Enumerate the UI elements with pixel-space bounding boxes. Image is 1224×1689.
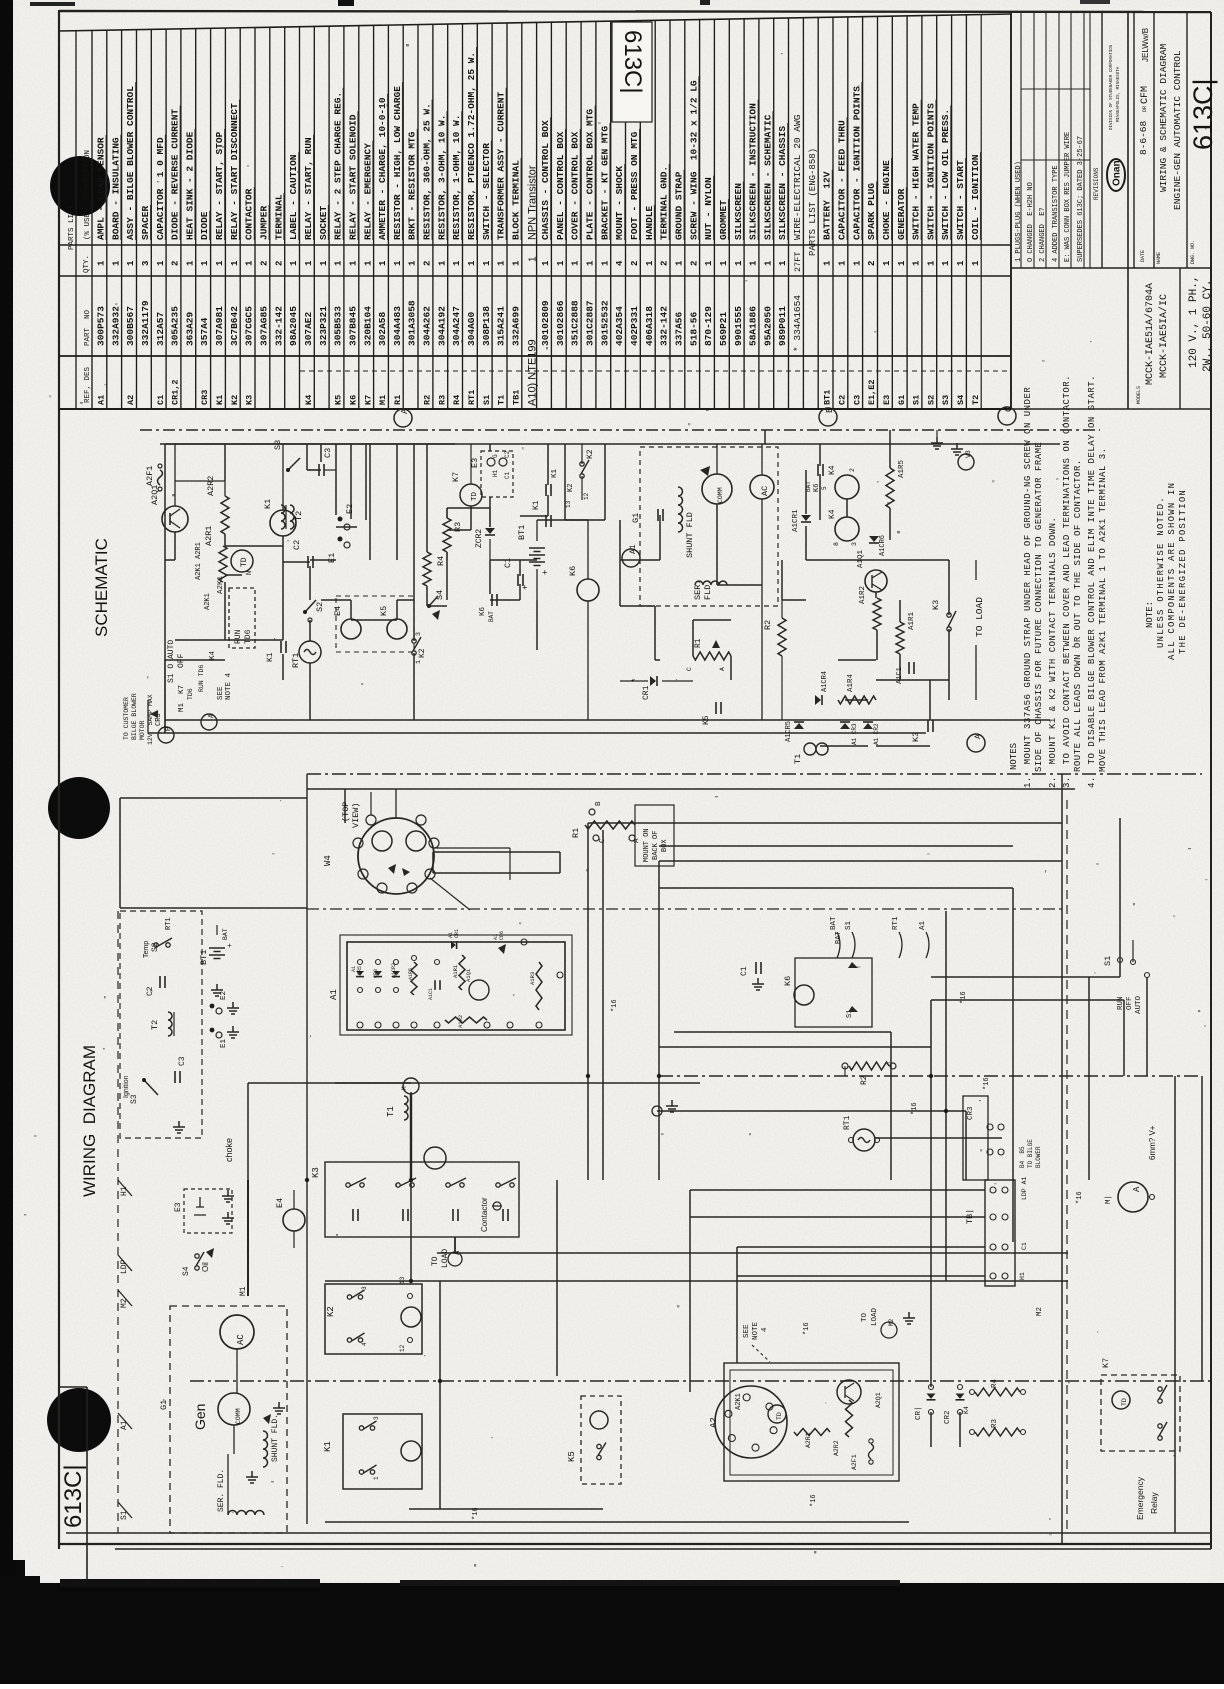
- wire: [433, 872, 560, 874]
- svg-text:98A2045: 98A2045: [288, 306, 299, 346]
- wire: [225, 574, 242, 576]
- svg-text:PARTS LIST (ENG-858): PARTS LIST (ENG-858): [808, 148, 818, 256]
- svg-text:TERMINAL GND.: TERMINAL GND.: [659, 166, 670, 240]
- svg-text:RT1: RT1: [291, 653, 301, 668]
- description underline: [742, 182, 744, 241]
- svg-text:A1R4: A1R4: [847, 673, 855, 692]
- svg-text:H1: H1: [120, 1186, 129, 1196]
- svg-text:R4: R4: [991, 1378, 999, 1388]
- svg-text:SWITCH - HIGH WATER TEMP: SWITCH - HIGH WATER TEMP: [911, 103, 922, 240]
- socket A2K1 circle: [715, 1386, 787, 1458]
- terminal labels on frame LDP: [118, 1255, 132, 1271]
- svg-text:JUMPER: JUMPER: [259, 205, 270, 240]
- svg-text:K7: K7: [1101, 1358, 1111, 1368]
- svg-text:8-6-68: 8-6-68: [1138, 120, 1149, 155]
- svg-text:TD6: TD6: [187, 688, 194, 700]
- svg-text:A2K1 A2R1: A2K1 A2R1: [195, 542, 203, 580]
- svg-text:RUN: RUN: [234, 629, 243, 644]
- svg-text:S1: S1: [845, 920, 853, 930]
- wire: [224, 582, 226, 640]
- svg-text:S1: S1: [912, 395, 922, 405]
- svg-text:NOTE: NOTE: [752, 1321, 760, 1340]
- svg-text:332A699: 332A699: [510, 306, 521, 346]
- svg-text:*16: *16: [983, 1077, 991, 1090]
- resistor R4 wiring: [975, 1388, 1020, 1396]
- wire: [889, 430, 891, 468]
- svg-text:K6: K6: [568, 566, 578, 576]
- svg-text:CR|: CR|: [915, 1406, 923, 1420]
- wire tail S1: [852, 932, 855, 958]
- time delay TD: [231, 550, 253, 572]
- svg-text:2: 2: [274, 261, 284, 266]
- svg-text:C3: C3: [323, 448, 333, 458]
- svg-text:LDP A1: LDP A1: [1021, 1176, 1028, 1200]
- feed-thru E1 wiring: [210, 1028, 215, 1033]
- svg-text:CR1: CR1: [454, 929, 460, 938]
- wire: [365, 444, 367, 520]
- svg-text:A1R3: A1R3: [529, 972, 536, 985]
- series field winding: [695, 581, 727, 585]
- svg-text:613C|: 613C|: [619, 30, 646, 94]
- diode CR1 wiring: [927, 1394, 936, 1399]
- svg-text:A1 CR2: A1 CR2: [873, 723, 880, 745]
- svg-text:8: 8: [833, 542, 840, 546]
- svg-text:S3: S3: [130, 1094, 139, 1104]
- wire: [427, 605, 447, 607]
- description underline: [298, 152, 300, 240]
- amplifier assembly A2 box: [724, 1363, 899, 1481]
- svg-text:1: 1: [926, 260, 936, 266]
- resistor A1R1: [896, 622, 904, 654]
- contact K3 upper: [947, 613, 951, 617]
- diode A1CR3: [840, 723, 850, 729]
- svg-text:C1: C1: [1021, 1242, 1028, 1250]
- svg-text:WIRE-ELECTRICAL 20 AWG: WIRE-ELECTRICAL 20 AWG: [792, 114, 803, 240]
- description underline: [283, 193, 285, 240]
- svg-text:HANDLE: HANDLE: [644, 205, 655, 240]
- svg-text:R4: R4: [436, 556, 446, 566]
- transistor A1Q1: [865, 570, 887, 592]
- svg-text:K2: K2: [586, 449, 595, 459]
- svg-text:Contactor: Contactor: [480, 1197, 489, 1232]
- junction: [305, 1178, 309, 1182]
- wire: [325, 1521, 909, 1523]
- battery BT1: [529, 548, 545, 566]
- svg-text:BATTERY 12V: BATTERY 12V: [822, 171, 833, 240]
- svg-text:Oil: Oil: [201, 1262, 210, 1272]
- svg-text:*16: *16: [472, 1507, 480, 1520]
- control box inner right: [1061, 774, 1063, 1544]
- resistor A1R5: [886, 468, 894, 508]
- contactor pole lower: [353, 1209, 358, 1221]
- wire: [736, 1247, 738, 1363]
- svg-text:BAT: BAT: [222, 928, 229, 940]
- svg-text:305B533: 305B533: [333, 306, 344, 346]
- svg-text:A: A: [1132, 1186, 1142, 1192]
- svg-text:1: 1: [230, 260, 240, 266]
- svg-text:308P138: 308P138: [481, 306, 492, 346]
- wire: [350, 444, 352, 519]
- wire: [620, 605, 655, 607]
- svg-text:C3: C3: [178, 1056, 187, 1066]
- relay K4 upper: [835, 475, 859, 499]
- svg-text:A1: A1: [329, 989, 339, 1000]
- wire: [409, 1508, 603, 1510]
- wire: [547, 495, 549, 516]
- resistor A1R2: [873, 598, 881, 630]
- description underline: [935, 100, 937, 240]
- wire: [890, 1032, 892, 1180]
- wire: [447, 529, 471, 531]
- wire: [659, 1075, 1202, 1077]
- svg-text:RT1: RT1: [165, 917, 173, 930]
- ammeter M1 top right: [1118, 1182, 1148, 1212]
- resistor A2R2: [221, 496, 229, 534]
- contact K1 upper schematic: [546, 484, 551, 496]
- A1 resistor R5: [411, 962, 417, 995]
- svg-text:H1: H1: [1019, 1272, 1026, 1280]
- wire: [282, 560, 284, 640]
- svg-text:SCHEMATIC: SCHEMATIC: [92, 538, 111, 637]
- svg-text:SILKSCREEN - INSTRUCTION: SILKSCREEN - INSTRUCTION: [748, 103, 759, 240]
- frame dashed boundary left wiring: [117, 911, 119, 1533]
- svg-text:TD: TD: [1121, 1398, 1128, 1406]
- description underline: [105, 135, 107, 240]
- svg-text:AC: AC: [760, 486, 770, 496]
- svg-text:1: 1: [956, 260, 966, 266]
- svg-text:FLD.: FLD.: [703, 580, 713, 600]
- description underline: [876, 182, 878, 241]
- engine accessories enclosure: [120, 911, 202, 1138]
- description underline: [965, 158, 967, 240]
- parts list table grid: [59, 14, 1011, 409]
- svg-text:C1: C1: [740, 966, 749, 976]
- svg-text:A1: A1: [120, 1420, 129, 1430]
- resistor A2R1 wiring: [794, 1429, 830, 1436]
- svg-text:SOCKET: SOCKET: [318, 205, 329, 240]
- wire: [875, 592, 877, 598]
- wire: [931, 976, 1120, 978]
- junction: [409, 1178, 413, 1182]
- wire: [489, 497, 491, 527]
- svg-text:1: 1: [319, 260, 329, 266]
- svg-text:12: 12: [399, 1344, 406, 1352]
- svg-text:TB1: TB1: [511, 390, 521, 405]
- contactor pole lower: [403, 1209, 408, 1221]
- wire: [874, 1137, 1002, 1139]
- svg-text:A1CR6: A1CR6: [879, 535, 887, 556]
- wire: [351, 619, 397, 621]
- mount on back of box label: [635, 805, 674, 866]
- svg-text:323P321: 323P321: [318, 306, 329, 346]
- svg-text:1: 1: [778, 260, 788, 266]
- svg-text:A2R2: A2R2: [206, 476, 216, 496]
- capacitor C1 schematic: [518, 574, 523, 586]
- svg-text:A: A: [719, 667, 726, 671]
- wire gen to rails: [716, 444, 718, 474]
- control box boundary second: [307, 788, 1075, 790]
- svg-text:GENERATOR: GENERATOR: [896, 188, 907, 240]
- wire: [820, 745, 845, 747]
- svg-text:K2: K2: [418, 648, 427, 658]
- wire: [490, 559, 537, 561]
- generator assembly box: [170, 1306, 287, 1533]
- wire W4 leads: [395, 789, 397, 818]
- svg-text:*: *: [631, 678, 641, 683]
- svg-text:DATE: DATE: [1140, 250, 1146, 262]
- svg-text:Emergency: Emergency: [1135, 1476, 1145, 1520]
- description underline: [564, 129, 566, 240]
- svg-text:MCCK-IAE51A/6704A: MCCK-IAE51A/6704A: [1144, 283, 1156, 385]
- svg-text:SILKSCREEN: SILKSCREEN: [733, 183, 744, 240]
- svg-text:1: 1: [111, 260, 121, 266]
- svg-text:LDP: LDP: [120, 1259, 129, 1274]
- wire: [899, 600, 901, 622]
- svg-text:K1: K1: [215, 395, 225, 405]
- svg-text:300B567: 300B567: [125, 306, 136, 346]
- svg-text:C1: C1: [504, 471, 511, 479]
- svg-text:MOTOR: MOTOR: [139, 720, 146, 740]
- wire: [659, 845, 1013, 847]
- svg-text:1: 1: [363, 260, 373, 266]
- svg-text:C: C: [599, 838, 607, 843]
- svg-text:6mm? V+: 6mm? V+: [1148, 1125, 1157, 1160]
- svg-text:C: C: [686, 667, 693, 671]
- svg-text:ZCR2: ZCR2: [475, 529, 484, 548]
- svg-text:+: +: [226, 943, 235, 948]
- svg-text:BT1: BT1: [199, 950, 209, 965]
- Onan logo: [1107, 159, 1125, 191]
- svg-text:K3: K3: [931, 600, 941, 610]
- svg-text:THE DE-ENERGIZED POSITION: THE DE-ENERGIZED POSITION: [1178, 489, 1188, 654]
- svg-text:RESISTOR, PTGENCO 1.72-OHM, 25: RESISTOR, PTGENCO 1.72-OHM, 25 W.: [466, 52, 477, 240]
- description underline: [209, 211, 211, 240]
- svg-text:337A56: 337A56: [673, 311, 684, 346]
- svg-text:4 ADDED TRANSISTOR TYPE: 4 ADDED TRANSISTOR TYPE: [1052, 165, 1060, 262]
- terminal labels on frame A1: [118, 1413, 132, 1429]
- switch S4: [427, 604, 431, 608]
- svg-text:LOAD: LOAD: [871, 1307, 879, 1326]
- svg-text:1: 1: [126, 260, 136, 266]
- wire: [309, 566, 311, 600]
- feed-thru E2: [338, 517, 343, 522]
- svg-text:P: P: [165, 727, 173, 731]
- terminal labels on frame M2: [118, 1290, 132, 1306]
- wire: [819, 474, 821, 520]
- wire gen leads: [236, 1349, 238, 1393]
- svg-text:MOUNT ON: MOUNT ON: [643, 828, 651, 862]
- description underline: [846, 117, 848, 240]
- svg-text:S2: S2: [151, 942, 160, 952]
- svg-text:613C|: 613C|: [1188, 78, 1218, 150]
- svg-text:1: 1: [373, 1476, 380, 1480]
- svg-text:RESISTOR, 3-OHM, 10 W.: RESISTOR, 3-OHM, 10 W.: [436, 115, 447, 240]
- relay K1 coil: [270, 510, 296, 536]
- choke E4: [341, 619, 361, 639]
- svg-text:A2R1: A2R1: [805, 1432, 812, 1448]
- wire: [247, 1083, 249, 1180]
- A1 resistor R2: [445, 1017, 487, 1023]
- svg-text:COMM: COMM: [235, 1408, 242, 1424]
- svg-text:TO: TO: [861, 1312, 869, 1322]
- svg-text:CAPACITOR - IGNITION POINTS: CAPACITOR - IGNITION POINTS: [851, 86, 862, 240]
- svg-text:PARTS LIST: PARTS LIST: [68, 204, 76, 250]
- wire: [806, 559, 890, 561]
- svg-text:305A235: 305A235: [170, 306, 181, 346]
- svg-text:1: 1: [289, 260, 299, 266]
- wire: [547, 444, 549, 485]
- wire: [160, 443, 455, 445]
- wire: [716, 504, 718, 585]
- wire: [175, 639, 209, 641]
- relay K1 box wiring: [343, 1414, 422, 1489]
- description underline: [431, 100, 433, 240]
- junction: [944, 1109, 948, 1113]
- svg-text:3. TO AVOID CONTACT BETWEEN C: 3. TO AVOID CONTACT BETWEEN COVER AND LE…: [1062, 375, 1072, 788]
- svg-text:*16: *16: [1076, 1191, 1084, 1204]
- svg-text:1: 1: [452, 260, 462, 266]
- A1 resistor R1: [459, 955, 465, 990]
- wire: [306, 444, 308, 470]
- svg-text:K7: K7: [363, 395, 373, 405]
- revision table: [1021, 12, 1090, 268]
- svg-text:BACK OF: BACK OF: [652, 831, 660, 860]
- svg-text:R2: R2: [423, 395, 433, 405]
- svg-text:1: 1: [941, 260, 951, 266]
- svg-text:BAT: BAT: [488, 611, 495, 622]
- wire: [225, 545, 283, 547]
- description underline: [194, 129, 196, 240]
- node B schematic-wiring link: [819, 408, 837, 426]
- svg-text:T1: T1: [497, 395, 507, 405]
- svg-text:312A57: 312A57: [155, 311, 166, 346]
- wire: [165, 559, 175, 561]
- description underline: [505, 88, 507, 240]
- svg-text:SPARK PLUG: SPARK PLUG: [866, 183, 877, 240]
- oil pressure switch S4 wiring: [195, 1254, 199, 1258]
- wire: [930, 1000, 932, 1387]
- svg-text:1: 1: [156, 260, 166, 266]
- A1 diode CR1: [451, 941, 456, 949]
- description underline: [520, 158, 522, 240]
- A1 resistor R3: [536, 962, 542, 1010]
- description underline: [979, 152, 981, 240]
- svg-text:NOTES: NOTES: [1009, 743, 1019, 770]
- wire: [446, 552, 448, 600]
- svg-text:1: 1: [304, 260, 314, 266]
- time delay TD A2: [768, 1405, 786, 1423]
- svg-text:RT1: RT1: [892, 916, 900, 930]
- wire: [519, 584, 521, 600]
- description underline: [727, 199, 729, 240]
- wire: [120, 797, 307, 799]
- svg-text:MINNEAPOLIS, MINNESOTA: MINNEAPOLIS, MINNESOTA: [1117, 66, 1121, 122]
- svg-text:WIRING DIAGRAM: WIRING DIAGRAM: [80, 1045, 99, 1197]
- ignition coil T2 wiring: [168, 1012, 172, 1036]
- resistor R3 wiring: [975, 1428, 1020, 1436]
- wire: [690, 1189, 985, 1191]
- wire: [556, 1180, 558, 1376]
- svg-text:332-142: 332-142: [273, 306, 284, 346]
- svg-text:58A1886: 58A1886: [748, 306, 759, 346]
- svg-text:A2F1: A2F1: [145, 466, 155, 486]
- svg-text:+: +: [541, 570, 551, 575]
- wire: [447, 507, 490, 509]
- svg-text:V3: V3: [965, 450, 972, 458]
- description underline: [446, 111, 448, 240]
- wire: [657, 1110, 966, 1112]
- svg-text:M1: M1: [378, 395, 388, 405]
- wire: [320, 444, 322, 462]
- svg-text:SEE: SEE: [217, 686, 225, 700]
- punch hole middle: [48, 777, 110, 839]
- svg-text:2: 2: [171, 261, 181, 266]
- svg-text:1: 1: [719, 260, 729, 266]
- svg-text:COIL - IGNITION: COIL - IGNITION: [970, 154, 981, 240]
- svg-text:2: 2: [423, 261, 433, 266]
- svg-text:(% USED DESCRIPTION: (% USED DESCRIPTION: [84, 150, 92, 240]
- svg-text:13: 13: [565, 500, 572, 508]
- svg-text:3C7B642: 3C7B642: [229, 306, 240, 346]
- svg-text:30152532: 30152532: [599, 300, 610, 346]
- description underline: [401, 82, 403, 240]
- svg-text:E2: E2: [345, 504, 355, 514]
- svg-text:2. MOUNT K1 & K2 WITH CONTACT: 2. MOUNT K1 & K2 WITH CONTACT TERMINALS …: [1048, 517, 1058, 788]
- svg-text:4: 4: [615, 260, 625, 266]
- svg-text:A2: A2: [126, 395, 136, 405]
- svg-text:R4: R4: [452, 395, 462, 405]
- wire: [66, 1532, 1211, 1534]
- description underline: [905, 187, 907, 240]
- wire: [369, 444, 371, 560]
- svg-text:CR1: CR1: [642, 685, 651, 700]
- wire A2R2 top: [224, 481, 226, 496]
- svg-text:R1: R1: [393, 395, 403, 405]
- svg-text:(TOP: (TOP: [341, 802, 351, 822]
- svg-text:MCCK-IAE5IA/IC: MCCK-IAE5IA/IC: [1158, 294, 1170, 378]
- description underline: [639, 129, 641, 240]
- description underline: [461, 111, 463, 240]
- contact K6 BAT 2: [818, 464, 823, 476]
- terminal labels on frame S1: [118, 1502, 132, 1518]
- svg-text:K3: K3: [311, 1167, 321, 1178]
- svg-text:S4: S4: [956, 395, 966, 405]
- svg-text:406A318: 406A318: [644, 306, 655, 346]
- svg-text:T2: T2: [150, 1020, 160, 1030]
- svg-text:RELAY - START SOLENOID: RELAY - START SOLENOID: [347, 114, 358, 240]
- svg-text:C2: C2: [504, 450, 511, 458]
- svg-text:PANEL - CONTROL BOX: PANEL - CONTROL BOX: [555, 131, 566, 240]
- description underline: [787, 123, 789, 240]
- svg-text:BILGE BLOWER: BILGE BLOWER: [131, 693, 138, 740]
- transformer T2: [290, 505, 294, 529]
- svg-text:MOVE THIS LEAD FROM A2K1 TERMI: MOVE THIS LEAD FROM A2K1 TERMINAL 1 TO A…: [1098, 447, 1108, 772]
- svg-text:30102809: 30102809: [540, 300, 551, 346]
- description underline: [268, 205, 270, 240]
- svg-text:30102866: 30102866: [555, 300, 566, 346]
- capacitor C3: [319, 464, 324, 476]
- diode CR2 wiring: [956, 1394, 965, 1399]
- svg-text:G1: G1: [631, 513, 641, 523]
- svg-text:SILKSCREEN - SCHEMATIC: SILKSCREEN - SCHEMATIC: [762, 114, 773, 240]
- contact K2 upper schematic: [580, 462, 584, 466]
- svg-text:2 CHANGED E?: 2 CHANGED E?: [1039, 207, 1047, 262]
- svg-text:*16: *16: [810, 1494, 818, 1507]
- svg-text:CAPACITOR 1 0 MFD: CAPACITOR 1 0 MFD: [155, 137, 166, 240]
- svg-text:RT1: RT1: [467, 390, 477, 405]
- svg-text:VIEW): VIEW): [351, 802, 361, 828]
- breaker points S3: [144, 1080, 158, 1095]
